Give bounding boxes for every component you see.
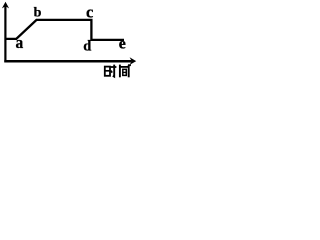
x-axis line bbox=[4, 60, 131, 63]
char 间: inner 日 bbox=[123, 69, 127, 75]
char 时: 寸 vertical with hook bbox=[113, 65, 114, 77]
axis label 时间 (time) drawn as vector strokes bbox=[104, 65, 131, 78]
char 间: 门 top bar bbox=[120, 66, 129, 68]
char 间: 门 top-right serif bbox=[128, 64, 131, 66]
svg-text:d: d bbox=[83, 39, 91, 55]
svg-text:c: c bbox=[86, 3, 93, 22]
char 时: 寸 dot bbox=[111, 71, 112, 73]
background bbox=[0, 0, 138, 80]
y-axis line bbox=[4, 6, 6, 62]
svg-text:e: e bbox=[119, 36, 126, 53]
char 间: 门 right vertical bbox=[128, 65, 130, 77]
y-axis arrowhead bbox=[2, 2, 9, 9]
svg-text:a: a bbox=[16, 32, 24, 52]
char 间: 门 left vertical bbox=[119, 65, 121, 78]
char 时: 寸 top bar bbox=[111, 66, 117, 68]
curve polyline a-b-c-d-e bbox=[5, 20, 125, 40]
x-axis arrowhead bbox=[130, 57, 137, 65]
svg-text:b: b bbox=[34, 6, 42, 21]
char 时: 日 radical bbox=[105, 67, 110, 76]
